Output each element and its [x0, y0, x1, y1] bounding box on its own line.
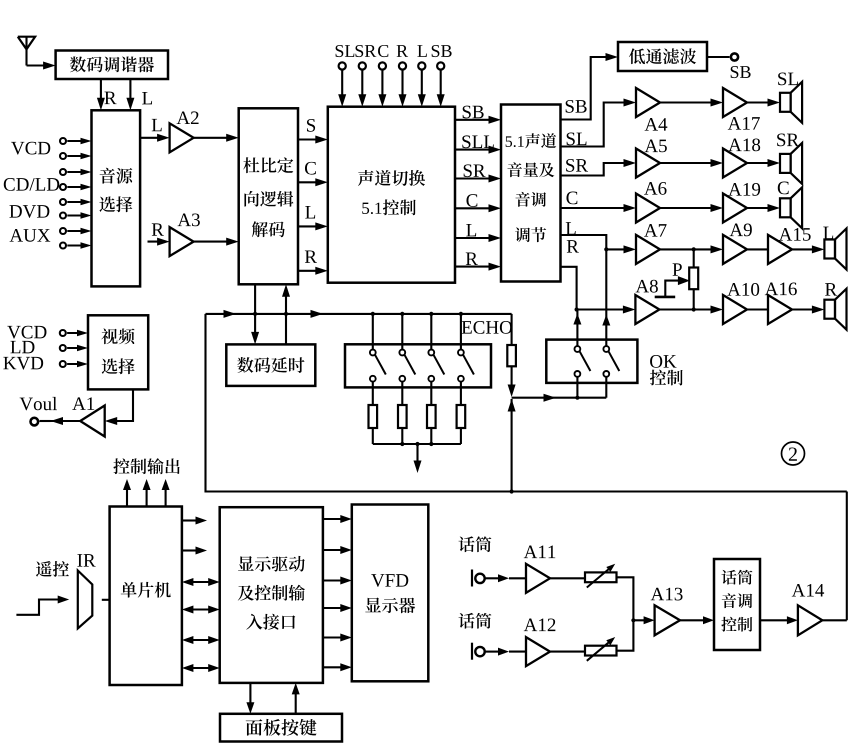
wire OK left down [576, 377, 578, 398]
op-amp A3 [170, 214, 200, 257]
wire OK right down [605, 377, 607, 398]
label LD [10, 341, 20, 353]
label SR [464, 164, 472, 177]
op-amp A12 [524, 619, 556, 667]
variable resistor VR1 [585, 564, 617, 588]
label C [378, 45, 388, 57]
wire R to A3 [148, 238, 170, 246]
speaker SR [777, 134, 802, 184]
wire A17 to speaker [747, 99, 780, 107]
wire A12 to var resistor [550, 651, 585, 653]
wire MCU IF bus y640 [182, 636, 220, 644]
wire feedback loop left [206, 314, 847, 494]
wire MCU to IF y520.5 [182, 517, 207, 525]
input jack 2 [60, 153, 92, 159]
wire channel L out [455, 234, 501, 242]
op-amp A13 [651, 588, 683, 636]
wire A5 to A18 [660, 159, 723, 167]
wire A4 to A17 [660, 99, 723, 107]
speaker C [778, 182, 802, 229]
remote waveform [16, 596, 69, 615]
input jack 8 [60, 242, 92, 248]
wire panel to IF up [292, 683, 300, 714]
input jack 5 [60, 199, 92, 205]
wire A3 to decoder [194, 238, 239, 246]
block 5.1 volume tone 5.1声道音量及音调调节 [501, 105, 561, 282]
wire IF to VFD y580.5 [323, 577, 352, 585]
op-amp A15 [768, 228, 811, 264]
op-amp A7 [636, 224, 667, 264]
wire IF to VFD y519 [323, 515, 352, 523]
wire C out to A6 [561, 204, 637, 212]
op-amp A17 [723, 88, 747, 117]
label KVD [3, 357, 16, 369]
label Voul [20, 398, 33, 411]
wire channel C out [455, 204, 501, 212]
op-amp A19 [723, 194, 747, 223]
block display driver 显示驱动及控制输入接口 [220, 507, 323, 683]
wire echo feed 4 [459, 312, 463, 350]
wire channel SR out [455, 175, 501, 183]
block MCU 单片机 [110, 507, 182, 686]
microphone 1 [472, 570, 485, 587]
label R [104, 92, 116, 104]
label SR [356, 45, 364, 57]
wire A10 to A16 [747, 308, 768, 310]
wire R out [561, 267, 577, 310]
wire A6 to A19 [660, 204, 723, 212]
wire VR1 to junction [617, 577, 634, 620]
wire L to A2 [140, 134, 170, 142]
block dolby decoder 杜比定向逻辑解码 [239, 108, 298, 284]
label L [566, 222, 576, 234]
wire mic2 to A12 [485, 648, 526, 656]
wire lpf to SB terminal [707, 53, 738, 60]
symbol circled 2 [782, 442, 805, 465]
wire SB out to low-pass [561, 53, 619, 120]
resistor echo 3 [427, 382, 436, 444]
wire A1 to Voul [31, 417, 81, 425]
potentiometer P [673, 249, 699, 309]
wire IF to VFD y608 [323, 604, 352, 612]
wire OK left up [573, 310, 581, 346]
wire IF to panel down [246, 683, 254, 714]
op-amp A8 [635, 280, 659, 324]
label 控制输出 [113, 458, 129, 474]
wire control out 127 [123, 479, 131, 507]
wire feedback top line [206, 310, 512, 318]
ground [655, 296, 676, 299]
node mic junction [631, 616, 654, 624]
input jack 1 [60, 138, 92, 144]
wire A8 to A10 [660, 306, 723, 314]
wire mic tone to A14 [760, 616, 798, 624]
wire tuner R down [97, 79, 105, 110]
op-amp A4 [636, 88, 660, 117]
op-amp A18 [723, 149, 747, 178]
op-amp A1 [72, 397, 104, 436]
label A5 [645, 140, 658, 153]
block VFD display VFD显示器 [352, 505, 429, 682]
block digital delay 数码延时 [226, 344, 315, 386]
resistor echo 1 [369, 382, 378, 444]
wire SR out to A5 [561, 159, 637, 176]
label C [305, 162, 316, 175]
label SB [566, 100, 574, 113]
wire decoder R out [298, 267, 328, 275]
wire MCU to IF y550.5 [182, 547, 207, 555]
label CD/LD [4, 178, 15, 191]
node R junction [575, 306, 636, 314]
label L [417, 45, 426, 57]
wire echo feed 1 [371, 312, 375, 350]
block digital tuner 数码调谐器 [56, 51, 168, 80]
input jack KVD video [60, 361, 88, 367]
label R [305, 250, 317, 262]
wire IF to VFD y637.5 [323, 634, 352, 642]
block mic tone control 话筒音调控制 [714, 559, 760, 650]
wire A2 to decoder [194, 134, 239, 142]
label R [466, 253, 478, 265]
antenna [18, 37, 35, 66]
label SR [566, 159, 574, 172]
wire A18 to speaker [747, 159, 780, 167]
switch S3 [428, 350, 444, 382]
wire delay to decoder up [282, 284, 290, 344]
wire A9 to A15 [747, 248, 768, 250]
wire MCU IF bus y609.5 [182, 606, 220, 614]
op-amp A9 [723, 224, 752, 264]
switch S1 [370, 350, 386, 382]
terminal SR top [358, 62, 366, 106]
IR receiver [78, 571, 93, 629]
label SB [432, 45, 440, 57]
block channel switch 声道切换 5.1控制 [328, 107, 455, 283]
label A18 [728, 139, 741, 152]
wire SL out to A4 [561, 99, 637, 147]
wire MCU IF bus y582 [182, 578, 220, 586]
label 话筒 mic2 [459, 613, 475, 629]
wire A7 to A9 [660, 245, 723, 253]
wire IF to VFD y550 [323, 546, 352, 554]
block echo switches [345, 344, 491, 387]
label R [567, 240, 579, 252]
block panel keys 面板按键 [220, 714, 342, 742]
input jack 4 [60, 184, 92, 190]
wire A14 output [822, 619, 847, 621]
wire feedback loop right [846, 492, 848, 621]
label SL [567, 133, 575, 146]
switch OK left [575, 346, 591, 377]
wire channel SB out [455, 116, 501, 124]
label VCD [11, 142, 24, 155]
wire echo to OK switches [512, 394, 607, 402]
wire tuner L down [126, 79, 134, 110]
block OK control [546, 340, 637, 383]
label C [466, 194, 477, 207]
label L [142, 92, 152, 104]
wire VR2 to junction [617, 620, 634, 650]
label 遥控 [36, 561, 52, 577]
wire control out 165.6 [162, 479, 170, 507]
label ECHO [462, 321, 472, 333]
wire A16 to speaker R [792, 306, 824, 314]
wire A13 to mic tone [680, 616, 714, 624]
label SB [731, 66, 739, 78]
wire channel SLL out [455, 146, 501, 154]
switch S4 [458, 350, 474, 382]
label R [397, 45, 408, 57]
label L [466, 224, 476, 236]
terminal C top [378, 62, 386, 106]
input jack 3 [60, 169, 92, 175]
wire antenna to tuner [27, 62, 56, 70]
resistor echo 2 [398, 382, 407, 444]
label 话筒 mic1 [459, 536, 475, 552]
op-amp A16 [765, 283, 797, 324]
wire IF to VFD y667.3 [323, 663, 352, 671]
terminal SB top [437, 62, 445, 106]
wire MCU IF bus y668 [182, 664, 220, 672]
label SB [463, 106, 471, 119]
wire echo feed 2 [400, 312, 404, 350]
label S [307, 119, 315, 132]
wire A19 to speaker [747, 204, 780, 212]
op-amp A14 [792, 584, 824, 635]
wire feedback up arrow [508, 399, 516, 492]
microphone 2 [472, 643, 485, 660]
block low pass filter 低通滤波 [618, 42, 707, 71]
label VCD [7, 326, 20, 339]
switch OK right [603, 346, 619, 377]
op-amp A10 [723, 283, 759, 324]
wire control out 146.6 [143, 479, 151, 507]
label R [152, 223, 164, 235]
label OK 控制 [650, 355, 683, 385]
wire echo sum down arrow [414, 444, 422, 473]
input jack 7 [60, 228, 92, 234]
label AUX [10, 229, 23, 242]
wire A15 to speaker L [792, 245, 824, 253]
op-amp A6 [636, 194, 660, 223]
speaker R [824, 283, 846, 330]
wire L out [561, 235, 607, 249]
input jack LD video [60, 345, 88, 351]
resistor echo 4 [457, 382, 466, 444]
label SLL [462, 135, 470, 148]
wiper arrow to P [665, 276, 690, 297]
input jack 6 [60, 212, 92, 218]
terminal SL top [338, 62, 346, 106]
label A17 [728, 117, 741, 130]
wire IR to MCU [102, 599, 110, 601]
speaker SL [778, 73, 802, 123]
wire channel R out [455, 263, 501, 271]
label A4 [645, 118, 658, 131]
wire decoder L out [298, 222, 328, 230]
wire OK right up [602, 249, 610, 346]
node L junction [604, 245, 636, 253]
wire A11 to var resistor [550, 577, 585, 579]
switch S2 [399, 350, 415, 382]
op-amp A5 [636, 149, 660, 178]
wire decoder S out [298, 136, 328, 144]
wire decoder C out [298, 178, 328, 186]
wire echo feed 3 [429, 312, 433, 350]
label IR [77, 554, 82, 566]
label A19 [728, 183, 741, 196]
speaker L [823, 227, 846, 270]
terminal R top [399, 62, 407, 106]
label SL [336, 45, 344, 57]
variable resistor VR2 [585, 637, 617, 661]
block video select 视频选择 [88, 315, 148, 389]
op-amp A2 [170, 111, 199, 152]
wire echo sum line [373, 442, 461, 446]
op-amp A11 [524, 546, 555, 593]
resistor echo mix [507, 314, 516, 397]
block source select 音源选择 [92, 110, 141, 286]
label DVD [9, 205, 21, 217]
terminal L top [418, 62, 426, 106]
input jack VCD video [60, 330, 88, 336]
label L [152, 119, 162, 131]
label C [566, 192, 577, 205]
label A6 [644, 182, 657, 195]
wire video out to A1 [105, 389, 133, 425]
wire mic1 to A11 [485, 574, 526, 582]
wire decoder to delay down [251, 284, 259, 344]
label L [305, 206, 315, 218]
